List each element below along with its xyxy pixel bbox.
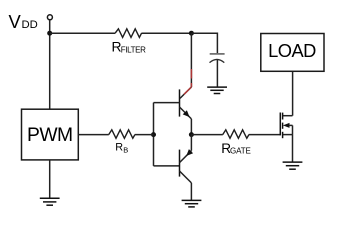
- svg-text:B: B: [123, 145, 128, 154]
- node collector junction: [189, 31, 194, 36]
- ground (PWM): [40, 198, 60, 205]
- svg-text:DD: DD: [22, 19, 38, 31]
- wire Q1 base lead: [154, 102, 180, 104]
- resistor RGATE: [223, 130, 249, 139]
- wire PWM output to RB: [78, 134, 109, 136]
- transistor Q1 NPN: [180, 89, 192, 119]
- resistor RB: [109, 130, 135, 139]
- wire collector vertical: [190, 33, 192, 87]
- transistor Q3 MOSFET: [280, 113, 292, 139]
- wire RB to bus: [135, 134, 154, 136]
- wire base bus vertical: [153, 103, 155, 166]
- svg-text:V: V: [9, 11, 22, 32]
- capacitor C1: [210, 53, 225, 55]
- red segment on collector vertical: [190, 69, 192, 79]
- red segment on collector vertical lower: [190, 83, 192, 87]
- svg-text:FILTER: FILTER: [121, 45, 146, 54]
- wire top rail left: [50, 32, 116, 34]
- red segment on collector diagonal: [184, 87, 191, 94]
- svg-text:PWM: PWM: [27, 125, 73, 146]
- ground (driver): [182, 200, 202, 207]
- svg-text:GATE: GATE: [230, 147, 251, 156]
- wire VDD to PWM top: [49, 20, 51, 109]
- wire RGATE to gate: [249, 134, 280, 136]
- wire output to RGATE: [191, 134, 222, 136]
- svg-text:R: R: [115, 142, 123, 154]
- ground (capacitor): [207, 87, 227, 93]
- svg-text:LOAD: LOAD: [268, 40, 316, 61]
- wire collector diagonal: [180, 87, 191, 98]
- VDD terminal circle: [47, 15, 52, 20]
- PWM box: [22, 109, 79, 160]
- wire PWM to ground: [49, 160, 51, 198]
- LOAD box: [261, 34, 324, 72]
- wire emitter vertical Q1: [190, 119, 192, 135]
- node output junction: [189, 132, 194, 137]
- wire capacitor to ground: [216, 59, 218, 87]
- ground (MOSFET): [283, 162, 303, 169]
- wire LOAD to drain: [292, 71, 294, 115]
- wire emitter vertical Q2: [190, 135, 192, 151]
- wire top rail right: [142, 32, 192, 34]
- wire to capacitor: [191, 33, 217, 53]
- node base junction: [151, 132, 156, 137]
- node VDD junction: [47, 31, 52, 36]
- wire Q2 collector to ground: [190, 183, 192, 200]
- wire source to ground: [292, 135, 294, 162]
- wire Q2 base lead: [154, 165, 180, 167]
- resistor RFILTER: [115, 29, 141, 38]
- transistor Q2 PNP: [180, 149, 194, 183]
